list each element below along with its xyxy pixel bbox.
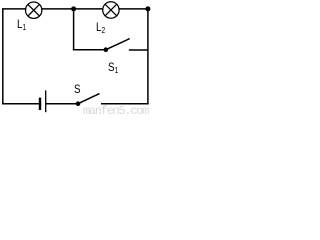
wire: middle branch horizontal to switch S1 [73, 49, 106, 51]
switch S lever [78, 94, 100, 104]
wire: top middle segment [41, 8, 103, 10]
label S [74, 83, 81, 95]
label L1 [17, 18, 26, 32]
label L2 [96, 21, 105, 35]
lamp L1 [26, 2, 42, 18]
node junction dot (top middle) [71, 6, 76, 11]
switch S pivot dot [76, 101, 81, 106]
wire: top right segment [118, 8, 147, 10]
lamp L2 [103, 2, 119, 18]
wire: middle branch vertical [73, 9, 75, 50]
label S1 [108, 61, 118, 75]
wire: S1 fixed contact to right wire [129, 49, 148, 51]
wire: battery to switch S [46, 103, 78, 105]
wire: right vertical [147, 9, 149, 104]
watermark [83, 105, 148, 117]
switch S1 lever [106, 39, 130, 50]
wire: left vertical [2, 9, 4, 104]
battery negative plate (short thick) [39, 98, 41, 110]
switch S1 pivot dot [104, 47, 109, 52]
wire: S fixed contact to bottom right corner [101, 103, 149, 105]
node junction dot (top right) [145, 6, 150, 11]
battery positive plate (long thin) [45, 90, 47, 112]
wire: top left segment [2, 8, 26, 10]
wire: bottom left segment [2, 103, 39, 105]
